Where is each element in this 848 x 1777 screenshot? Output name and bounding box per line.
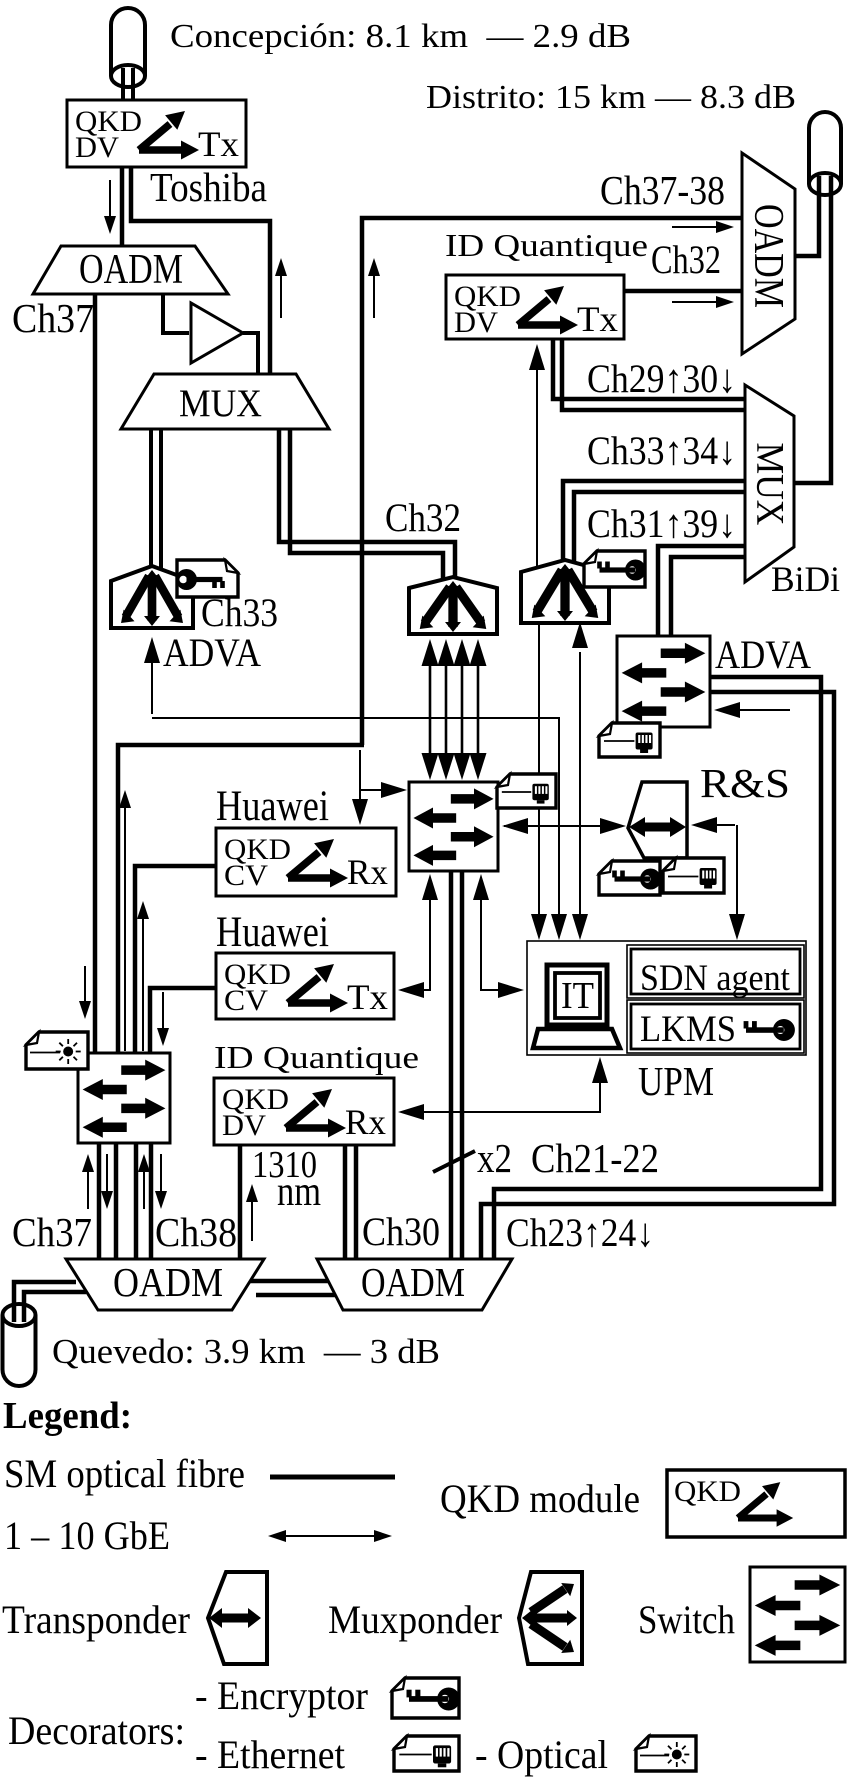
svg-text:Ch30: Ch30 (362, 1209, 440, 1254)
svg-text:Ch37-38: Ch37-38 (600, 167, 725, 213)
svg-text:ADVA: ADVA (163, 630, 261, 675)
svg-text:Quevedo: 3.9 km — 3 dB: Quevedo: 3.9 km — 3 dB (52, 1332, 440, 1371)
svg-text:Ch37: Ch37 (12, 295, 94, 341)
svg-text:Decorators:: Decorators: (8, 1708, 185, 1753)
svg-text:Transponder: Transponder (2, 1597, 190, 1642)
svg-text:1 – 10 GbE: 1 – 10 GbE (4, 1513, 170, 1558)
svg-text:BiDi: BiDi (771, 559, 840, 599)
svg-text:OADM: OADM (745, 204, 791, 308)
svg-text:Ch29↑30↓: Ch29↑30↓ (587, 356, 736, 401)
svg-text:CV: CV (224, 984, 268, 1017)
svg-text:MUX: MUX (179, 382, 262, 425)
svg-text:Ch38: Ch38 (155, 1209, 237, 1255)
svg-text:QKD module: QKD module (440, 1476, 640, 1521)
svg-text:Ch37: Ch37 (12, 1209, 92, 1255)
svg-text:Tx: Tx (347, 977, 388, 1017)
svg-text:R&S: R&S (700, 760, 790, 806)
svg-text:Rx: Rx (347, 852, 388, 892)
svg-text:Switch: Switch (638, 1597, 735, 1642)
svg-text:Ch32: Ch32 (385, 495, 461, 540)
svg-text:Muxponder: Muxponder (328, 1597, 502, 1642)
svg-text:Ch32: Ch32 (651, 237, 721, 282)
svg-text:Huawei: Huawei (216, 909, 329, 956)
svg-text:Tx: Tx (198, 124, 239, 164)
svg-text:SDN agent: SDN agent (640, 958, 791, 999)
svg-text:Ch33: Ch33 (201, 590, 278, 635)
svg-text:SM optical fibre: SM optical fibre (4, 1451, 245, 1496)
svg-text:- Optical: - Optical (475, 1732, 608, 1777)
svg-text:ID Quantique: ID Quantique (214, 1039, 419, 1075)
svg-text:Distrito: 15 km — 8.3 dB: Distrito: 15 km — 8.3 dB (426, 79, 796, 116)
svg-text:Ch21-22: Ch21-22 (531, 1135, 659, 1181)
svg-text:Rx: Rx (345, 1102, 386, 1142)
svg-text:DV: DV (75, 131, 119, 164)
svg-text:DV: DV (222, 1109, 266, 1142)
svg-text:Tx: Tx (577, 299, 618, 339)
svg-text:MUX: MUX (749, 443, 792, 526)
svg-text:OADM: OADM (113, 1259, 223, 1305)
svg-text:ID Quantique: ID Quantique (445, 227, 648, 263)
svg-text:Huawei: Huawei (216, 783, 329, 830)
svg-text:Concepción: 8.1 km — 2.9 dB: Concepción: 8.1 km — 2.9 dB (170, 18, 631, 55)
svg-text:Ch33↑34↓: Ch33↑34↓ (587, 428, 736, 473)
svg-text:DV: DV (454, 306, 498, 339)
svg-text:- Ethernet: - Ethernet (195, 1732, 345, 1777)
svg-text:IT: IT (561, 975, 594, 1017)
svg-text:Ch23↑24↓: Ch23↑24↓ (506, 1210, 654, 1255)
svg-text:LKMS: LKMS (640, 1009, 736, 1050)
svg-text:Toshiba: Toshiba (150, 164, 267, 210)
svg-text:UPM: UPM (638, 1058, 714, 1104)
svg-text:CV: CV (224, 859, 268, 892)
svg-text:Ch31↑39↓: Ch31↑39↓ (587, 501, 736, 546)
svg-text:x2: x2 (477, 1135, 512, 1181)
svg-text:nm: nm (277, 1169, 321, 1215)
svg-text:OADM: OADM (361, 1259, 465, 1305)
svg-text:ADVA: ADVA (715, 632, 811, 677)
svg-text:OADM: OADM (79, 247, 183, 293)
svg-text:- Encryptor: - Encryptor (195, 1673, 368, 1718)
svg-text:QKD: QKD (674, 1475, 741, 1508)
svg-text:Legend:: Legend: (3, 1395, 132, 1437)
